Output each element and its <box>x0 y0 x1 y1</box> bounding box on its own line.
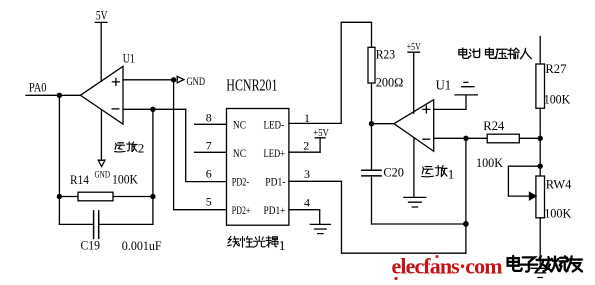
pin 7 stub (NC) <box>195 151 227 153</box>
earth ground below U1 <box>404 197 426 207</box>
wire C20 bottom to inverting node <box>372 223 466 225</box>
svg-text:C20: C20 <box>383 165 404 180</box>
resistor R14 <box>78 192 113 201</box>
pin labels inside right column <box>264 120 286 217</box>
svg-text:+5V: +5V <box>313 128 329 139</box>
wire + input down to pin 5 <box>174 80 227 210</box>
+5V tap at pin 2 <box>313 128 329 152</box>
label 电池 电压输入 <box>459 48 531 59</box>
svg-text:LED+: LED+ <box>264 148 286 160</box>
wire U1 - input to R24 <box>434 137 488 139</box>
pin 3 wire (PD1-) long run to U1 inverting node <box>289 181 466 253</box>
svg-text:1: 1 <box>304 111 310 125</box>
wire noninverting input to GND tap <box>123 79 174 81</box>
pin 2 wire (LED+) <box>289 151 320 153</box>
label 线性光耦1 <box>228 236 286 253</box>
svg-text:PD1-: PD1- <box>265 177 285 189</box>
resistor R24 <box>487 134 540 143</box>
wire inverting input <box>123 108 186 110</box>
potentiometer RW4 wiper arm <box>508 166 540 200</box>
svg-text:LED-: LED- <box>264 120 285 132</box>
pin labels inside left column <box>232 120 251 217</box>
wire output node to U1 apex <box>372 123 395 125</box>
resistor R27 <box>536 64 545 108</box>
battery input rail top <box>539 37 541 65</box>
optocoupler HCNR201 box <box>227 109 289 226</box>
pin 4 wire (PD1+) <box>289 210 320 224</box>
svg-text:C19: C19 <box>81 237 101 252</box>
svg-text:100K: 100K <box>544 205 572 220</box>
svg-text:GND: GND <box>187 76 206 88</box>
pin 1 wire (LED-) up to R23 top rail <box>289 22 372 123</box>
svg-text:PD2-: PD2- <box>232 177 249 189</box>
svg-text:7: 7 <box>206 138 212 152</box>
svg-text:R14: R14 <box>70 172 89 187</box>
svg-text:1: 1 <box>448 166 455 181</box>
node junction at - input <box>150 107 155 112</box>
wire feedback left vertical <box>58 95 60 224</box>
node junction R24/rail <box>538 136 543 141</box>
svg-text:100K: 100K <box>112 172 139 187</box>
svg-text:NC: NC <box>233 148 246 160</box>
ground arrow below op-amp (GND) <box>95 110 111 181</box>
5V supply symbol <box>95 8 108 82</box>
svg-text:PD1+: PD1+ <box>264 205 286 217</box>
svg-text:PD2+: PD2+ <box>232 205 251 217</box>
pin 8 stub (NC) <box>195 123 227 125</box>
+5V supply at U1 <box>407 42 421 113</box>
label 运放1 <box>422 166 455 182</box>
node junction R14 right <box>150 194 155 199</box>
ground stem below U1 <box>413 138 415 197</box>
wire feedback right vertical <box>152 109 154 224</box>
node junction - input <box>463 136 468 141</box>
ground flag GND (right-pointing) <box>177 76 205 88</box>
svg-text:U1: U1 <box>123 51 135 66</box>
svg-text:6: 6 <box>206 166 212 180</box>
label 运放2 <box>115 140 145 155</box>
op-amp U1 (left, 运放2) <box>80 66 123 124</box>
svg-text:U1: U1 <box>436 78 452 93</box>
capacitor C20 <box>362 124 381 224</box>
svg-text:3: 3 <box>304 167 310 181</box>
node junction at PA0 <box>57 93 62 98</box>
potentiometer RW4 body <box>536 176 545 218</box>
node junction at + input <box>171 77 176 82</box>
svg-text:5V: 5V <box>96 8 108 23</box>
svg-text:RW4: RW4 <box>546 177 572 192</box>
wire RW4 bottom <box>539 218 541 268</box>
inverted earth ground at U1 + input <box>455 82 477 109</box>
svg-text:5: 5 <box>206 195 212 209</box>
earth ground at pin 4 <box>310 224 330 233</box>
wire - input down to pin 6 <box>186 109 227 181</box>
svg-text:1: 1 <box>279 238 286 253</box>
svg-text:2: 2 <box>138 140 145 155</box>
svg-text:8: 8 <box>206 110 212 124</box>
node junction wiper tap <box>538 164 543 169</box>
resistor R23 <box>368 22 375 123</box>
svg-text:2: 2 <box>303 139 309 153</box>
svg-text:R24: R24 <box>483 118 504 133</box>
wire R27 bottom to RW4 <box>539 108 541 176</box>
op-amp U1 (right, 运放1) <box>394 100 434 152</box>
svg-text:100K: 100K <box>544 92 571 107</box>
svg-text:GND: GND <box>95 171 111 181</box>
svg-text:+5V: +5V <box>407 42 421 53</box>
wire inverting node vertical <box>465 138 467 253</box>
node junction U1 output <box>369 121 374 126</box>
watermark elecfans.com <box>392 254 503 281</box>
wire PA0 to op-amp output <box>26 94 80 96</box>
svg-text:0.001uF: 0.001uF <box>122 238 162 253</box>
svg-text:R23: R23 <box>376 47 395 62</box>
svg-text:HCNR201: HCNR201 <box>226 75 277 94</box>
node junction R14 left <box>57 194 62 199</box>
svg-text:200Ω: 200Ω <box>376 75 404 90</box>
earth ground bottom right <box>531 268 549 277</box>
svg-text:PA0: PA0 <box>29 79 47 94</box>
svg-text:elecfans·com: elecfans·com <box>392 254 503 279</box>
svg-text:4: 4 <box>304 195 310 209</box>
node junction C20/pin3 <box>463 221 469 227</box>
wire R14 row <box>59 196 152 198</box>
capacitor C19 <box>59 211 152 239</box>
svg-text:100K: 100K <box>476 155 504 170</box>
svg-text:NC: NC <box>233 120 246 132</box>
wire U1 + input <box>434 108 466 110</box>
svg-text:R27: R27 <box>545 61 566 76</box>
watermark 电子发烧友 <box>508 256 582 272</box>
